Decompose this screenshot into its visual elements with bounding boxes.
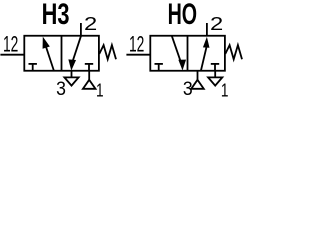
svg-text:H3: H3 (42, 0, 70, 31)
svg-text:2: 2 (210, 13, 223, 34)
svg-text:2: 2 (84, 13, 97, 34)
svg-text:HO: HO (168, 0, 197, 31)
svg-text:1: 1 (221, 81, 229, 101)
svg-text:12: 12 (129, 31, 144, 56)
svg-text:3: 3 (56, 77, 66, 99)
svg-text:1: 1 (96, 81, 104, 101)
svg-text:12: 12 (3, 31, 18, 56)
svg-text:3: 3 (183, 77, 193, 99)
